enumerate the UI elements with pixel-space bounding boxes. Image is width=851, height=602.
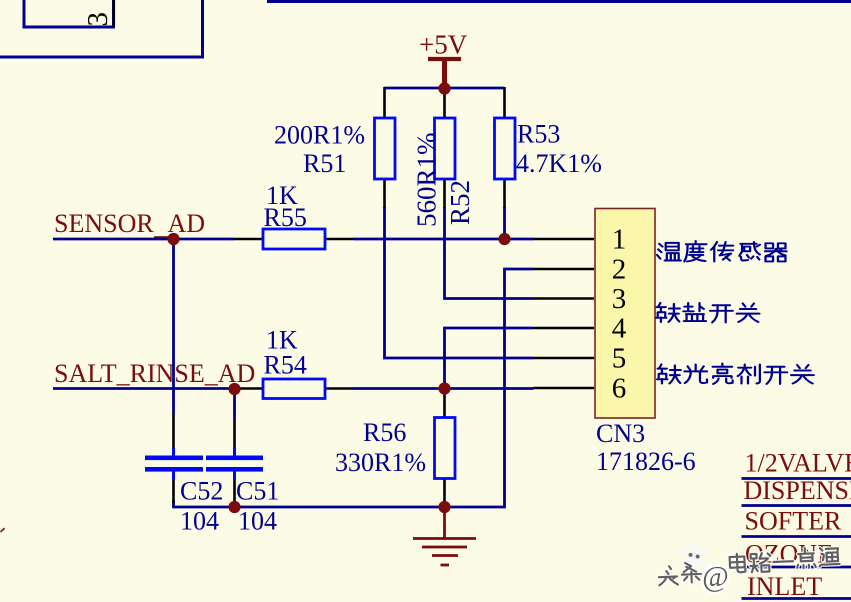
svg-text:1: 1	[612, 224, 627, 256]
svg-text:R53: R53	[517, 120, 560, 149]
svg-text:104: 104	[238, 507, 277, 536]
svg-text:@: @	[701, 561, 729, 594]
svg-text:6: 6	[612, 373, 627, 405]
svg-text:330R1%: 330R1%	[335, 448, 426, 477]
svg-text:INLET: INLET	[747, 572, 822, 601]
svg-text:4: 4	[612, 313, 627, 345]
svg-text:R54: R54	[264, 351, 307, 380]
svg-text:SOFTER: SOFTER	[745, 507, 842, 536]
svg-text:3: 3	[82, 12, 114, 27]
svg-text:R52: R52	[445, 180, 475, 225]
svg-text:DISPENSE: DISPENSE	[744, 476, 851, 505]
svg-text:CN3: CN3	[596, 419, 645, 448]
svg-text:R56: R56	[363, 418, 406, 447]
svg-text:171826-6: 171826-6	[596, 447, 696, 476]
svg-text:SALT_RINSE_AD: SALT_RINSE_AD	[54, 359, 255, 388]
svg-text:+5V: +5V	[419, 30, 468, 60]
svg-text:5: 5	[612, 343, 627, 375]
svg-text:200R1%: 200R1%	[274, 121, 365, 150]
svg-text:C52: C52	[180, 477, 223, 506]
svg-text:560R1%: 560R1%	[412, 133, 442, 228]
svg-text:SENSOR: SENSOR	[54, 209, 154, 238]
svg-text:C51: C51	[236, 477, 279, 506]
svg-text:104: 104	[180, 507, 219, 536]
svg-text:2: 2	[612, 254, 627, 286]
svg-text:3: 3	[612, 283, 627, 315]
svg-text:R51: R51	[303, 149, 346, 178]
svg-text:R55: R55	[264, 203, 307, 232]
svg-text:1/2VALVE: 1/2VALVE	[745, 449, 851, 478]
svg-text:4.7K1%: 4.7K1%	[516, 149, 602, 178]
